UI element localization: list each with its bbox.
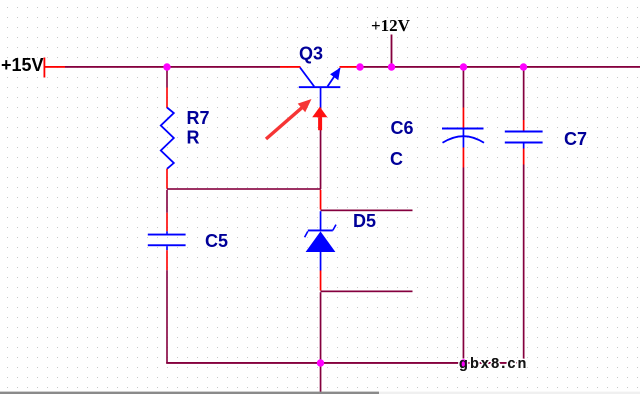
window edge gray bar [0, 392, 640, 394]
transistor Q3 [299, 68, 341, 108]
junction (167,67) [163, 63, 170, 70]
svg-text:Q3: Q3 [299, 44, 323, 64]
junction (463.5,363) [460, 359, 467, 366]
port +15V tick [44, 58, 46, 78]
svg-text:C5: C5 [205, 231, 228, 251]
wire: horizontal R7/C5 to Q3 base net [167, 188, 321, 190]
watermark gbx8.cn [459, 356, 529, 372]
wire: left vertical upper (bus to R7) [166, 67, 168, 108]
wire: main bus left segment [65, 66, 280, 68]
wire: red pin above D5 [320, 190, 322, 210]
svg-text:+12V: +12V [371, 16, 411, 35]
label R7 [187, 108, 210, 128]
wire: D5 bottom to bottom bus [320, 292, 322, 363]
label R [187, 128, 200, 148]
annotation: big red arrow pointing at Q3 [266, 99, 312, 139]
wire: +12V drop [391, 35, 393, 67]
wire: left vertical, junction to C5 [166, 190, 168, 234]
label C5 [205, 231, 228, 251]
label C7 [564, 129, 587, 149]
wire: Q3 base drop to net [320, 108, 322, 190]
junction (463.5,67) [460, 63, 467, 70]
resistor R7 [161, 108, 174, 169]
wire: C5 bottom pin + left vertical to bottom bus [166, 246, 168, 363]
svg-text:R7: R7 [187, 108, 210, 128]
capacitor C7 [505, 131, 543, 149]
transistor Q3 label [299, 44, 323, 64]
wire: C6 top pin [463, 67, 465, 128]
wire: C7 bottom pin to bottom bus [523, 149, 525, 363]
wire: Q3 collector red pin on bus [280, 66, 301, 68]
svg-text:+15V: +15V [1, 55, 44, 75]
wire: C7 top pin [523, 67, 525, 131]
wire: main bus right segment [360, 66, 640, 68]
wire: bottom drop below bus [320, 364, 322, 392]
svg-text:gbx8.cn: gbx8.cn [459, 356, 529, 372]
wire: bottom bus [166, 362, 524, 364]
svg-text:C: C [390, 149, 403, 169]
wire: upper right stub [321, 210, 413, 212]
svg-text:D5: D5 [353, 211, 376, 231]
capacitor C6 (polarized) [442, 128, 484, 148]
wire: C6 bottom pin to bottom bus [463, 148, 465, 364]
wire: red pin below D5 [320, 271, 322, 291]
port +15V label [1, 55, 44, 75]
wire: blue pin to D5 bar [320, 211, 322, 230]
wire: lower right stub [321, 291, 413, 293]
net label +12V [371, 16, 411, 35]
junction (360,67) [356, 63, 363, 70]
label C6 [391, 118, 414, 138]
label C [390, 149, 403, 169]
capacitor C5 [148, 234, 186, 247]
junction (391.5,67) [388, 63, 395, 70]
wire: Q3 emitter red pin on bus [340, 66, 361, 68]
wire: +15V red stub [44, 66, 66, 68]
label D5 [353, 211, 376, 231]
junction (523.5,67) [520, 63, 527, 70]
junction (320.5,363) [317, 359, 324, 366]
zener diode D5 [305, 225, 336, 271]
annotation: small red arrow at Q3 base [312, 107, 327, 130]
svg-text:C6: C6 [391, 118, 414, 138]
wire: R7 bottom pin [166, 169, 168, 189]
svg-text:R: R [187, 128, 200, 148]
svg-text:C7: C7 [564, 129, 587, 149]
